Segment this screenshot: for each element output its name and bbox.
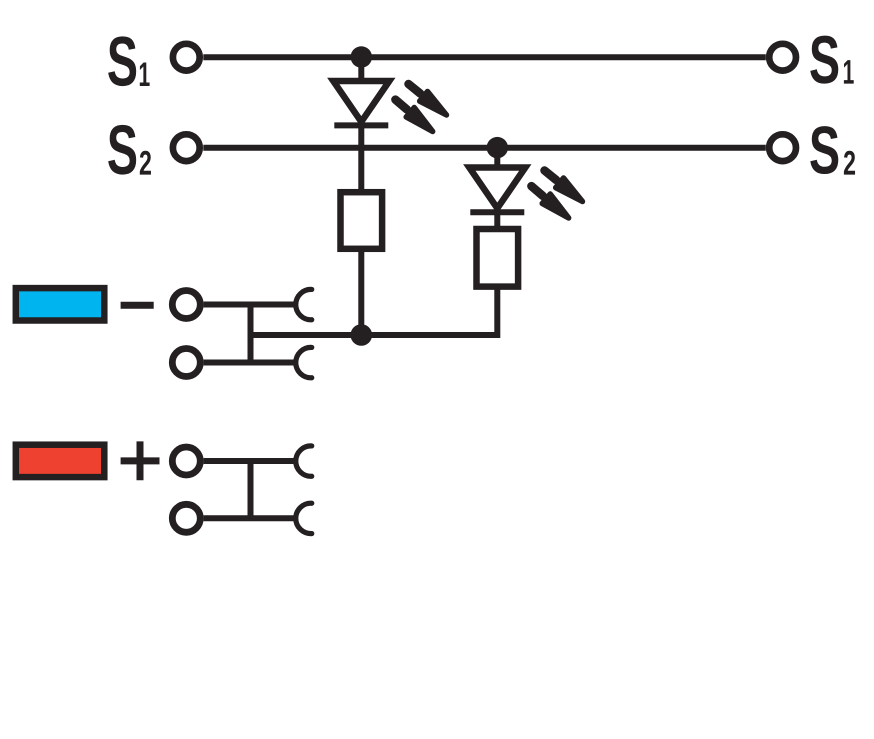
wire resistor R1 to node A (358, 250, 364, 335)
LED D1 (333, 81, 389, 125)
terminal S2 right (769, 134, 796, 161)
label S1 left (108, 36, 149, 86)
terminal plus lower (172, 504, 200, 532)
label S2 left (108, 125, 151, 175)
LED D1 light arrows (391, 79, 450, 136)
wire minus upper (204, 302, 296, 308)
plus sign (121, 441, 160, 480)
wire from S2 junction to LED D2 anode (494, 148, 500, 170)
minus sign (121, 302, 154, 309)
bus wire plus group (248, 461, 254, 518)
resistor R2 (477, 229, 519, 287)
wire plus lower (204, 515, 296, 521)
bus wire minus group (248, 305, 254, 363)
wire minus lower (204, 360, 296, 366)
junction on S1 rail (351, 46, 372, 67)
wire from S1 junction to LED D1 anode (358, 57, 364, 84)
wire LED D1 cathode to resistor R1 (358, 118, 364, 190)
minus marker (blue) (16, 288, 105, 320)
terminal plus upper (172, 447, 200, 475)
wire S2 rail (203, 145, 766, 151)
clamp contact plus lower (296, 503, 312, 533)
wire plus upper (204, 458, 296, 464)
label S1 right (810, 36, 853, 84)
wire LED D2 cathode to resistor R2 (494, 205, 500, 227)
LED D2 light arrows (527, 166, 586, 223)
junction on S2 rail (487, 137, 508, 158)
clamp contact minus lower (296, 347, 312, 377)
clamp contact plus upper (296, 446, 312, 476)
terminal S1 left (173, 44, 200, 71)
wire S1 rail (203, 54, 766, 60)
terminal minus lower (172, 349, 200, 377)
terminal S1 right (769, 44, 796, 71)
terminal minus upper (172, 291, 200, 319)
plus marker (red) (16, 445, 105, 477)
node A junction dot (351, 324, 373, 346)
resistor R1 (341, 192, 383, 249)
terminal S2 left (173, 134, 200, 161)
clamp contact minus upper (296, 289, 312, 319)
wire resistor R2 down and left to node A (251, 287, 498, 335)
label S2 right (810, 126, 855, 175)
LED D2 (469, 168, 525, 213)
